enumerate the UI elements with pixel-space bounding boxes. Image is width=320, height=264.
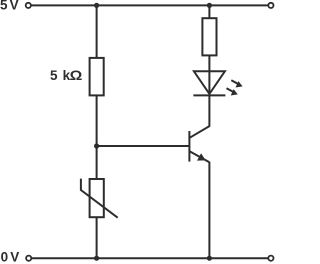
junction node: base wire / left branch [94, 143, 99, 148]
junction node: top rail / R2 [207, 3, 212, 8]
transistor Q1 emitter diagonal [190, 151, 210, 162]
thermistor diagonal strike with bent end [81, 179, 118, 218]
resistor R2 (body, series with LED) [202, 18, 216, 55]
junction node: bottom rail / emitter [207, 256, 212, 261]
terminal: 5V left [26, 3, 31, 8]
wire: +5V top rail [31, 4, 269, 6]
thermistor (body) [90, 179, 104, 217]
wire: 0V bottom rail [31, 257, 268, 259]
LED emission arrow (upper) [231, 80, 242, 87]
wire: right branch upper vertical (rail through R2, LED, to collector bend) [208, 5, 210, 126]
wire: base connection (node between R1 and thermistor to transistor base) [97, 145, 190, 147]
svg-text:5k: 5k [50, 68, 71, 83]
resistor R1 5 kOhm (body) [90, 58, 104, 96]
wire: left branch vertical (rail to rail through R1 and thermistor) [96, 5, 98, 258]
svg-text:5V: 5V [0, 0, 19, 13]
wire: emitter vertical down to 0V rail [208, 162, 210, 258]
terminal: 0V right [268, 256, 273, 261]
LED D1 triangle (anode) [194, 71, 225, 94]
LED D1 cathode bar [193, 94, 225, 96]
transistor Q1 collector diagonal [190, 126, 210, 138]
LED emission arrow (lower) [227, 88, 238, 95]
terminal: 0V left [26, 256, 31, 261]
transistor Q1 emitter arrowhead [197, 153, 206, 160]
svg-text:Ω: Ω [70, 69, 83, 84]
junction node: top rail / R1 [94, 3, 99, 8]
svg-text:0V: 0V [1, 250, 20, 264]
junction node: bottom rail / thermistor [94, 256, 99, 261]
terminal: 5V right [268, 3, 273, 8]
transistor Q1 base bar [188, 131, 190, 162]
